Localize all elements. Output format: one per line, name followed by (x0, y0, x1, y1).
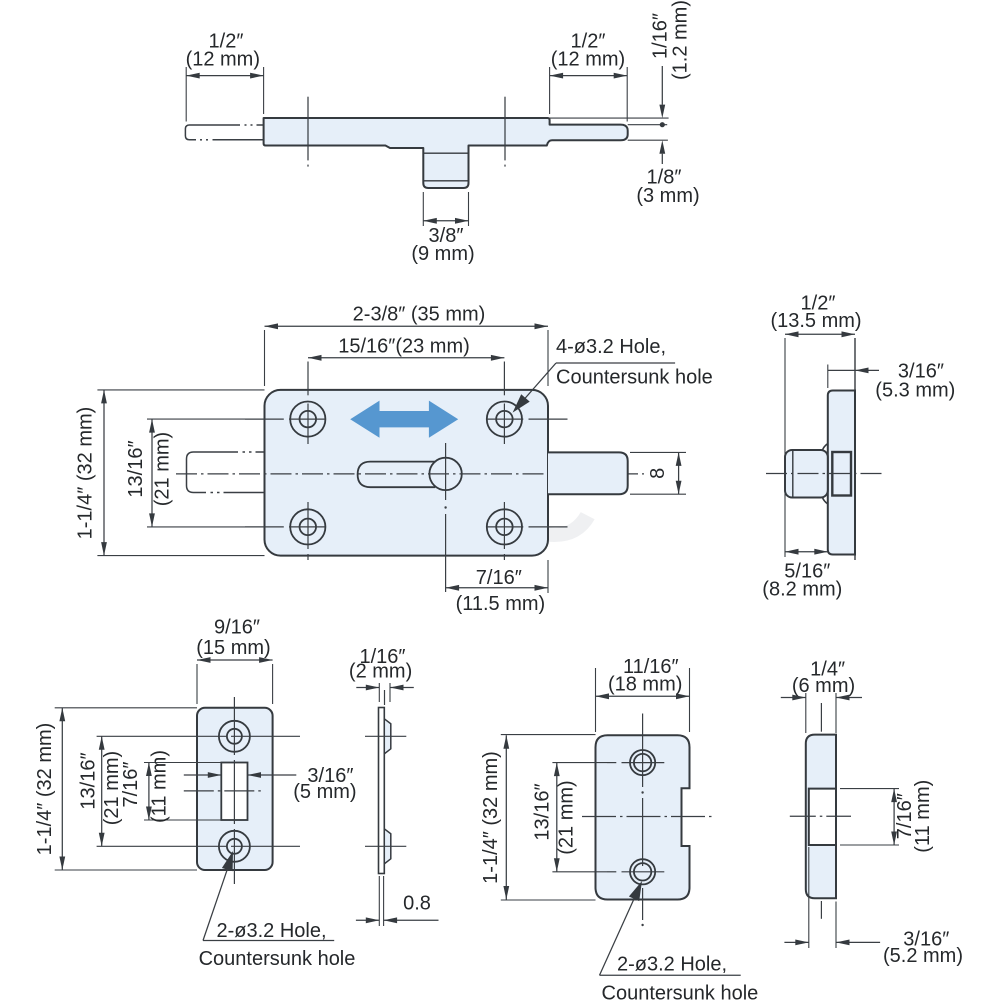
keeper side: right edge line across notch (835, 789, 837, 845)
svg-text:8: 8 (647, 468, 669, 479)
strike plate vertical centerline (233, 697, 235, 755)
svg-text:2-ø3.2 Hole,: 2-ø3.2 Hole, (617, 954, 727, 976)
keeper side centerline horizontal (790, 815, 851, 817)
svg-text:2-3/8″ (35 mm): 2-3/8″ (35 mm) (353, 304, 486, 326)
front view: horizontal centerline (176, 473, 644, 475)
svg-text:4-ø3.2 Hole,: 4-ø3.2 Hole, (556, 336, 666, 358)
top view: hole centerline left (projected) (307, 97, 309, 161)
svg-text:1-1/4″ (32 mm): 1-1/4″ (32 mm) (74, 407, 96, 540)
dim: 13/16" (21 mm) hole spacing vertical (front view) (147, 418, 245, 420)
front view: slide slot (358, 462, 436, 488)
svg-text:(5.2 mm): (5.2 mm) (883, 945, 963, 967)
dim: 1/2" (12 mm) left of top view (185, 67, 187, 122)
strike side countersink bump bottom (384, 829, 391, 864)
svg-text:7/16″: 7/16″ (476, 567, 522, 589)
top view: hole centerline right (projected) (504, 97, 506, 161)
dim: 1-1/4" (32 mm) strike height (55, 707, 197, 709)
dim: 5/16" (8.2 mm) knob protrusion (785, 551, 828, 553)
svg-text:(11.5 mm): (11.5 mm) (456, 593, 546, 615)
dim: 2-3/8" (35 mm) plate width (264, 330, 266, 386)
dim: 1/2" (13.5 mm) side view width (784, 338, 786, 557)
dim: 1-1/4" (32 mm) plate height (front view) (97, 389, 264, 391)
dim: 15/16" (23 mm) hole spacing (308, 357, 504, 359)
dim: 8 rod height (630, 451, 686, 453)
svg-text:(13.5 mm): (13.5 mm) (770, 310, 861, 332)
svg-text:(5 mm): (5 mm) (293, 781, 356, 803)
svg-text:(18 mm): (18 mm) (608, 674, 682, 696)
dim: 1/16" (2 mm) strike thickness w/ bump (378, 683, 380, 702)
dim: 1-1/4" (32 mm) keeper height (501, 734, 596, 736)
dim: 13/16" (21 mm) strike hole spacing (101, 736, 103, 846)
front view: phantom retracted bolt position (left) (187, 452, 239, 493)
svg-text:1-1/4″ (32 mm): 1-1/4″ (32 mm) (480, 751, 502, 884)
front view: blue slide direction arrow (350, 401, 458, 438)
keeper side centerline vertical (820, 703, 822, 732)
dim: 13/16" (21 mm) keeper hole spacing (552, 762, 607, 764)
svg-text:Countersunk hole: Countersunk hole (199, 948, 356, 970)
svg-text:(9 mm): (9 mm) (411, 243, 474, 265)
keeper vertical centerline (642, 714, 644, 788)
dim: 1/8" (3 mm) rod thickness, right (628, 139, 668, 141)
dim: 3/8" (9 mm) knob width (422, 192, 424, 226)
svg-text:(5.3 mm): (5.3 mm) (875, 379, 955, 401)
svg-text:13/16″: 13/16″ (125, 440, 147, 497)
svg-text:(1.2 mm): (1.2 mm) (670, 0, 692, 80)
top view: knob cap edge lines (423, 152, 468, 154)
svg-text:(11 mm): (11 mm) (912, 780, 934, 853)
front view: hole centerline crosses (245, 418, 284, 420)
dim: 3/16" (5.3 mm) plate offset (827, 365, 829, 389)
strike plate front (197, 708, 273, 870)
svg-text:13/16″: 13/16″ (78, 752, 100, 809)
svg-text:(11 mm): (11 mm) (149, 750, 171, 823)
svg-text:(3 mm): (3 mm) (636, 185, 699, 207)
front view: knob circle (429, 458, 461, 490)
svg-text:Countersunk hole: Countersunk hole (556, 367, 713, 389)
strike slot centerline (184, 790, 261, 792)
svg-text:7/16″: 7/16″ (120, 761, 142, 807)
dim: 3/16" (5.2 mm) keeper notch depth (808, 847, 810, 948)
strike side centerlines (365, 735, 406, 737)
svg-text:2-ø3.2 Hole,: 2-ø3.2 Hole, (216, 920, 326, 942)
keeper hole cross lines (607, 762, 616, 764)
keeper horizontal centerline (582, 816, 715, 818)
svg-text:(12 mm): (12 mm) (186, 48, 260, 70)
dim: 7/16" (11 mm) keeper notch height (840, 788, 899, 790)
svg-text:(21 mm): (21 mm) (151, 432, 173, 506)
side view: mounting plate (828, 391, 855, 555)
svg-text:Countersunk hole: Countersunk hole (602, 983, 759, 1000)
strike plate holes (219, 721, 250, 752)
side view: right face line (854, 338, 856, 560)
side view: horizontal centerline (766, 473, 882, 475)
front view: 4 countersunk holes (290, 402, 325, 437)
dim: 9/16" (15 mm) strike width (196, 664, 198, 704)
side view: bolt cross-section rectangle (832, 452, 851, 496)
side view: knob neck flares (822, 444, 828, 451)
strike side countersink bump top (384, 719, 391, 754)
side view: knob (side) (785, 450, 828, 498)
keeper side view plate (806, 735, 836, 899)
svg-text:1-1/4″ (32 mm): 1-1/4″ (32 mm) (34, 723, 56, 856)
strike plate slot (221, 763, 247, 821)
dim: 1/16" (1.2 mm) offset, top right (550, 117, 669, 119)
top view: latch body silhouette (bar, bolt rod, knob) (264, 118, 628, 188)
top view: phantom extended bolt (dash-dot-dot outline) (185, 125, 240, 140)
strike plate hole horizontals (97, 735, 226, 737)
dim: 0.8 strike sheet thickness (378, 876, 380, 926)
dim: 7/16" (11 mm) slot height (148, 763, 150, 821)
svg-text:1/16″: 1/16″ (650, 13, 672, 59)
keeper plate front (596, 735, 690, 899)
dim: 1/4" (6 mm) keeper thickness (805, 693, 807, 733)
svg-text:0.8: 0.8 (403, 893, 431, 915)
svg-text:(8.2 mm): (8.2 mm) (762, 579, 842, 601)
dim: 1/2" (12 mm) right of top view (549, 67, 551, 114)
svg-text:(2 mm): (2 mm) (349, 661, 412, 683)
svg-text:9/16″: 9/16″ (214, 617, 260, 639)
svg-text:13/16″: 13/16″ (532, 783, 554, 840)
svg-text:(21 mm): (21 mm) (556, 780, 578, 854)
front view: bolt rod protruding right (548, 452, 628, 494)
svg-text:(15 mm): (15 mm) (196, 637, 270, 659)
svg-text:(6 mm): (6 mm) (792, 675, 855, 697)
dim: 11/16" (18 mm) keeper width (595, 668, 597, 732)
strike slot extension lines (144, 762, 221, 764)
svg-text:15/16″(23 mm): 15/16″(23 mm) (338, 336, 470, 358)
strike side profile plate (379, 708, 385, 874)
dim: 7/16" (11.5 mm) knob to edge (547, 560, 549, 593)
svg-text:(12 mm): (12 mm) (551, 48, 625, 70)
front view: knob circle vertical centerline (445, 443, 447, 500)
dim: 3/16" (5 mm) slot width (184, 774, 222, 776)
keeper holes (630, 750, 655, 775)
front view: latch plate (265, 390, 549, 556)
